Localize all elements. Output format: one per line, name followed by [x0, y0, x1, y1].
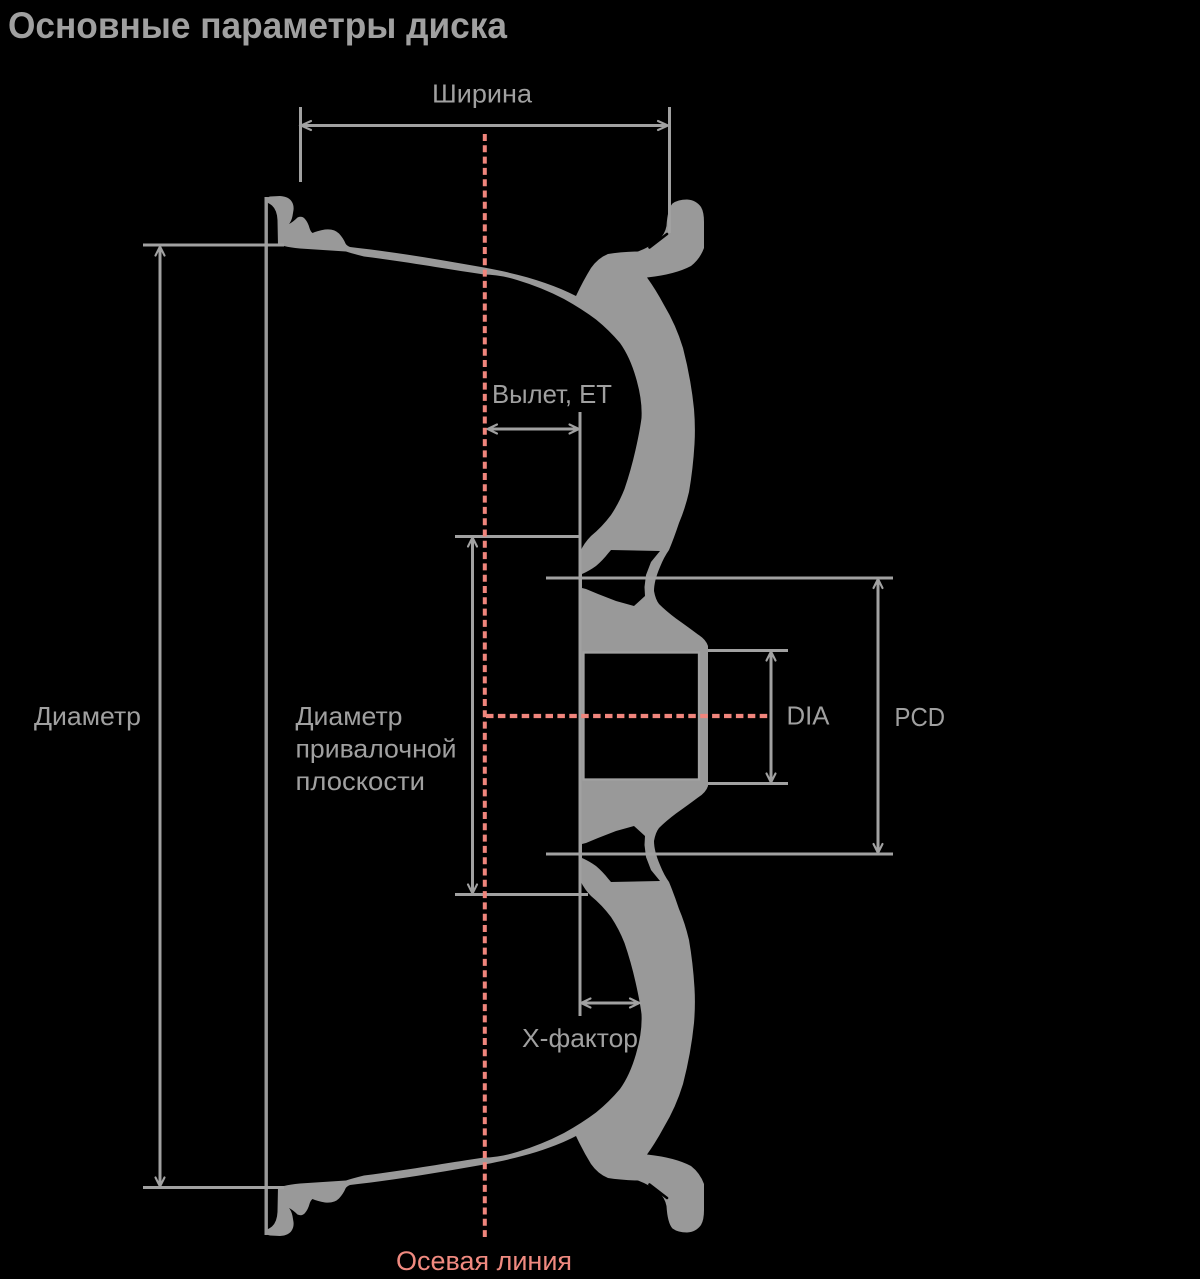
- mounting surface dia tick top: [455, 535, 581, 538]
- arrow DIA up: [767, 652, 776, 661]
- center line horizontal (red dashed): [486, 714, 768, 718]
- mounting face ext line: [579, 412, 582, 1016]
- width dim line: [302, 124, 667, 127]
- DIA tick top: [708, 649, 788, 652]
- rim cross-section top half: [265, 196, 709, 716]
- X-factor dim line: [583, 1002, 638, 1005]
- arrow DIA down: [767, 774, 776, 783]
- arrow mounting dia down: [468, 885, 477, 894]
- slit under top curl: [650, 234, 668, 248]
- center line vertical (red dashed): [483, 134, 487, 1237]
- PCD dim line: [877, 580, 880, 852]
- DIA tick bottom: [708, 782, 788, 785]
- arrow diameter down: [156, 1178, 165, 1187]
- ET dim line: [489, 428, 577, 431]
- width ext left: [299, 107, 302, 182]
- svg-text:Ширина: Ширина: [432, 79, 533, 109]
- diameter tick top: [143, 244, 284, 247]
- svg-text:Осевая линия: Осевая линия: [396, 1246, 572, 1276]
- svg-text:Диаметр: Диаметр: [34, 701, 141, 731]
- mounting surface dia dim line: [471, 538, 474, 892]
- rim leftmost edge line: [265, 197, 268, 1235]
- svg-text:DIA: DIA: [787, 701, 831, 731]
- arrow ET left: [488, 425, 498, 434]
- svg-text:Вылет, ET: Вылет, ET: [492, 379, 612, 409]
- arrow diameter up: [156, 247, 165, 256]
- arrow width left: [301, 121, 311, 130]
- PCD tick top: [546, 577, 893, 580]
- hub bore: [584, 653, 700, 780]
- DIA dim line: [770, 653, 773, 781]
- arrow PCD down: [874, 844, 883, 853]
- mounting surface dia tick bottom: [455, 893, 588, 896]
- arrow X-factor right: [630, 999, 640, 1008]
- svg-text:Х-фактор: Х-фактор: [522, 1023, 638, 1053]
- svg-text:Диаметр: Диаметр: [296, 701, 403, 731]
- arrow mounting dia up: [468, 538, 477, 547]
- svg-text:плоскости: плоскости: [296, 766, 426, 796]
- bolt hole slot top: [582, 550, 660, 606]
- rim cross-section bottom half (mirror): [265, 716, 709, 1236]
- svg-text:привалочной: привалочной: [296, 734, 457, 764]
- bolt hole slot bottom (mirror): [582, 826, 660, 882]
- arrow X-factor left: [581, 999, 591, 1008]
- svg-text:Основные параметры диска: Основные параметры диска: [8, 5, 507, 46]
- slit above bottom curl: [650, 1185, 668, 1199]
- PCD tick bottom: [546, 853, 893, 856]
- diameter dim line: [159, 248, 162, 1185]
- width ext right: [668, 107, 671, 233]
- diameter tick bottom: [143, 1186, 284, 1189]
- arrow width right: [658, 121, 668, 130]
- arrow ET right: [570, 425, 580, 434]
- arrow PCD up: [874, 579, 883, 588]
- svg-text:PCD: PCD: [895, 702, 946, 732]
